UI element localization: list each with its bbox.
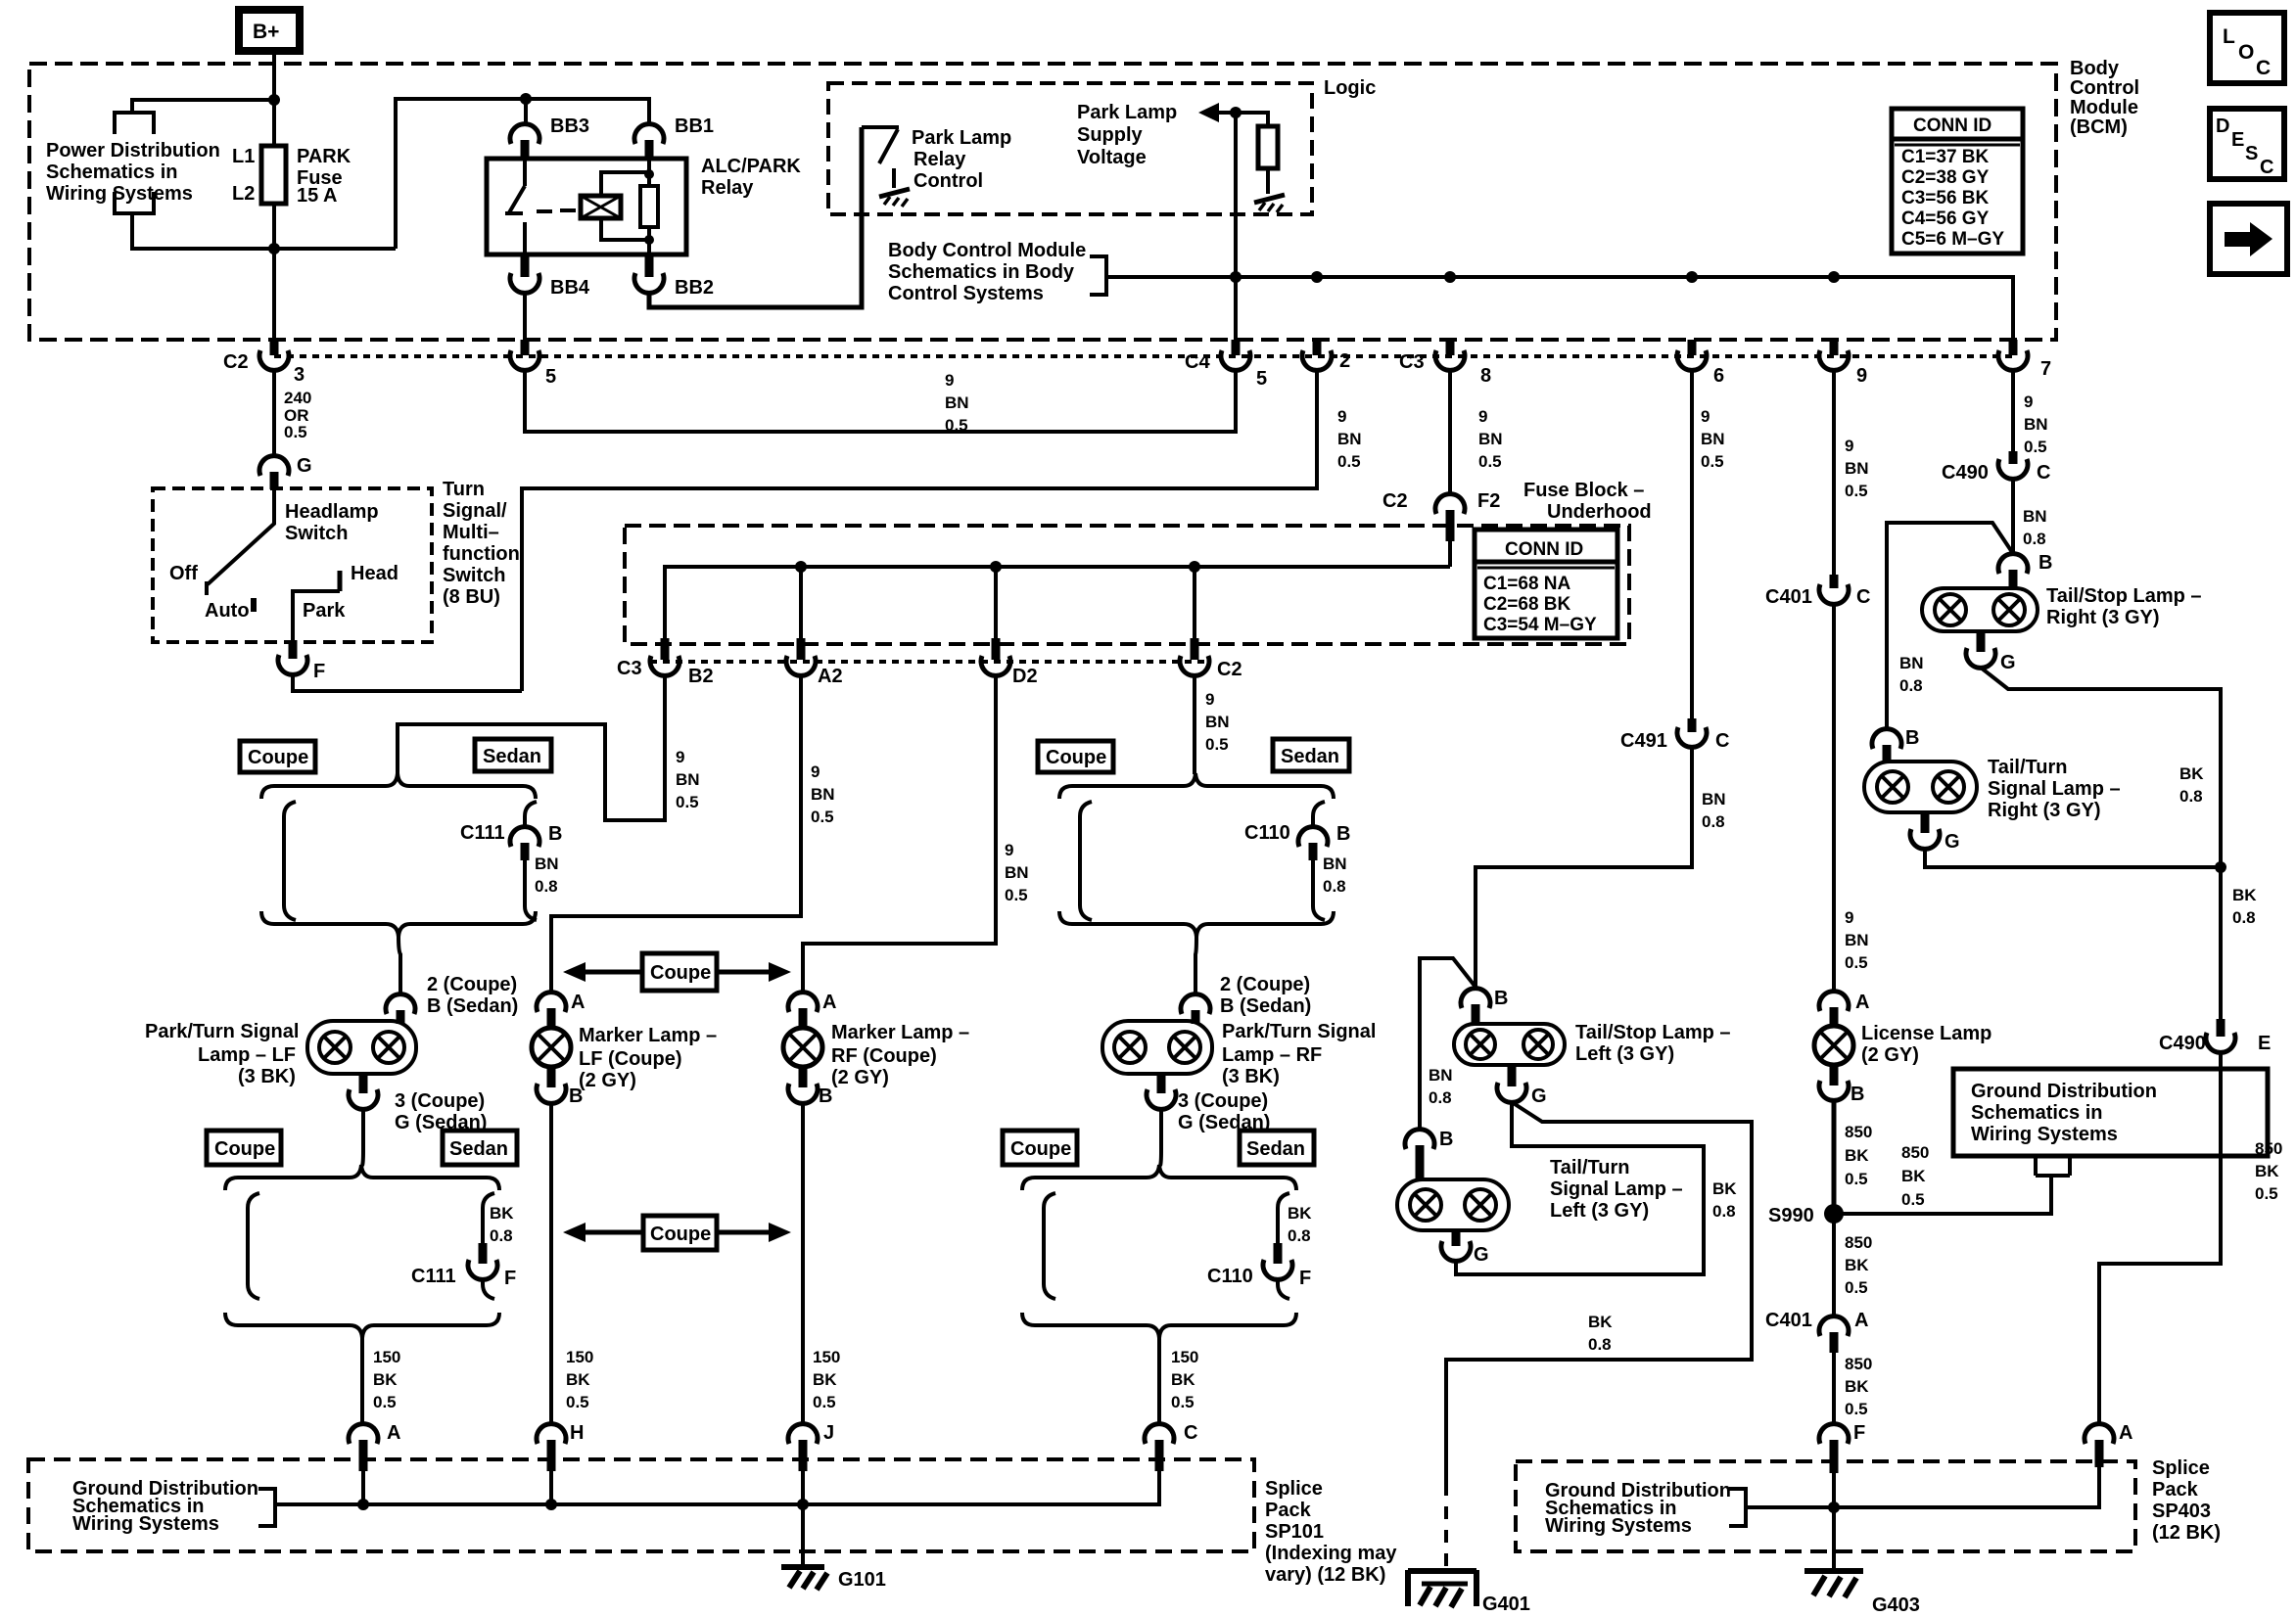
connector C401-A xyxy=(1765,1310,1868,1353)
connector B marker lamp LF xyxy=(537,1067,583,1107)
connector 2 Coupe B Sedan LF xyxy=(386,974,518,1024)
node junction right edge grounds xyxy=(2215,861,2226,873)
power distribution reference bracket top xyxy=(115,113,154,134)
svg-text:C: C xyxy=(2260,157,2273,178)
connector A marker lamp LF xyxy=(537,992,585,1028)
svg-text:Voltage: Voltage xyxy=(1077,147,1147,168)
svg-text:Body: Body xyxy=(2070,58,2120,79)
headlamp switch wiper arm xyxy=(207,489,274,595)
svg-text:C3=54 M–GY: C3=54 M–GY xyxy=(1483,615,1597,635)
Fuse Block Underhood dashed box xyxy=(625,526,1629,644)
pin C3-B2 xyxy=(617,638,714,687)
svg-text:0.8: 0.8 xyxy=(2023,530,2046,548)
wire lower RF to connector C xyxy=(1157,1338,1161,1425)
node junction ground bus at J xyxy=(797,1499,809,1510)
svg-text:C3=56 BK: C3=56 BK xyxy=(1901,188,1990,208)
svg-text:(2 GY): (2 GY) xyxy=(579,1070,636,1091)
wire tail turn right G to right edge xyxy=(1925,849,2221,867)
svg-text:B: B xyxy=(1905,727,1919,749)
BCM internal output bus xyxy=(1106,277,2013,341)
label Tail/Stop Lamp Left xyxy=(1575,1022,1731,1065)
svg-text:9: 9 xyxy=(1845,437,1853,455)
svg-text:BK: BK xyxy=(1171,1370,1195,1389)
wire pin8 down to F2 xyxy=(1448,370,1452,495)
svg-text:F: F xyxy=(1853,1422,1865,1444)
svg-text:9: 9 xyxy=(1701,407,1710,426)
svg-text:BK: BK xyxy=(490,1204,514,1223)
svg-text:0.5: 0.5 xyxy=(1845,1170,1868,1188)
wire label BN 0.8 C111 xyxy=(535,855,559,896)
svg-text:S990: S990 xyxy=(1768,1205,1814,1226)
svg-text:8: 8 xyxy=(1480,365,1491,387)
svg-text:B: B xyxy=(2038,552,2052,574)
svg-text:C110: C110 xyxy=(1207,1266,1253,1287)
svg-text:Tail/Turn: Tail/Turn xyxy=(1550,1157,1629,1178)
svg-text:2 (Coupe): 2 (Coupe) xyxy=(1220,974,1310,995)
svg-text:(8 BU): (8 BU) xyxy=(443,586,500,608)
svg-text:9: 9 xyxy=(676,748,684,766)
svg-text:Control: Control xyxy=(914,170,983,192)
ground distribution box legs xyxy=(2036,1156,2070,1176)
wire label 850 BK 0.5 S990 right xyxy=(1901,1143,1929,1209)
label Coupe box upper RF xyxy=(1038,741,1113,772)
svg-text:BK: BK xyxy=(1845,1377,1869,1396)
svg-text:Coupe: Coupe xyxy=(248,747,308,768)
wire label 9 BN 0.5 B2 xyxy=(676,748,700,811)
svg-text:9: 9 xyxy=(811,762,820,781)
svg-text:Headlamp: Headlamp xyxy=(285,501,379,523)
wire label 9 BN 0.5 A2 xyxy=(811,762,835,826)
brace split upper LF xyxy=(261,773,536,799)
wire label BK 0.8 outer path xyxy=(1588,1313,1613,1354)
wire BB2 to park lamp relay control xyxy=(649,127,862,307)
lamp Park/Turn Signal Lamp RF capsule xyxy=(1102,1021,1212,1074)
wire bus down to C2 xyxy=(1193,567,1196,641)
lamp Marker Lamp RF xyxy=(783,1028,822,1067)
svg-text:B: B xyxy=(548,823,562,845)
ground G401 xyxy=(1408,1570,1530,1615)
svg-text:C5=6 M–GY: C5=6 M–GY xyxy=(1901,229,2004,250)
pin C2-3 xyxy=(223,340,305,386)
wire pin3 to headlamp switch G xyxy=(272,370,276,457)
pin C4-5 xyxy=(1185,340,1267,390)
wire tail stop left G outer path to G401 xyxy=(1446,1102,1752,1483)
wire F to pin2 run xyxy=(293,674,522,691)
svg-text:PARK: PARK xyxy=(297,146,351,167)
svg-text:0.5: 0.5 xyxy=(2024,438,2047,456)
svg-text:(2 GY): (2 GY) xyxy=(1861,1044,1919,1066)
coupe wire upper RF xyxy=(1080,802,1092,920)
svg-text:Body Control Module: Body Control Module xyxy=(888,240,1086,261)
svg-text:Power Distribution: Power Distribution xyxy=(46,140,220,162)
svg-text:150: 150 xyxy=(566,1348,593,1366)
wire D2 to marker lamp RF xyxy=(803,675,996,993)
svg-text:C401: C401 xyxy=(1765,586,1812,608)
brace split lower RF xyxy=(1022,1165,1296,1190)
lamp License Lamp xyxy=(1814,1026,1853,1065)
svg-text:Coupe: Coupe xyxy=(1046,747,1106,768)
svg-text:0.5: 0.5 xyxy=(676,793,699,811)
label Head with contact tick xyxy=(340,563,398,591)
svg-text:240: 240 xyxy=(284,389,311,407)
connector B tail stop left xyxy=(1461,988,1508,1025)
svg-text:C1=68 NA: C1=68 NA xyxy=(1483,574,1571,594)
connector H ground distribution xyxy=(537,1422,584,1471)
svg-text:C3: C3 xyxy=(617,658,642,679)
svg-text:A: A xyxy=(822,992,836,1013)
svg-text:0.5: 0.5 xyxy=(1845,482,1868,500)
svg-text:(BCM): (BCM) xyxy=(2070,116,2128,138)
wire C2 to RF brace feed xyxy=(1193,675,1196,774)
svg-text:G101: G101 xyxy=(838,1569,886,1591)
svg-text:850: 850 xyxy=(1845,1233,1872,1252)
svg-text:Turn: Turn xyxy=(443,479,485,500)
svg-text:License Lamp: License Lamp xyxy=(1861,1023,1991,1044)
brace join lower LF xyxy=(225,1313,499,1338)
svg-text:Tail/Stop Lamp –: Tail/Stop Lamp – xyxy=(1575,1022,1731,1043)
label Marker Lamp RF xyxy=(831,1022,969,1088)
svg-text:BB3: BB3 xyxy=(550,115,589,137)
wire C490-E to SP403 A xyxy=(2099,1052,2221,1425)
lamp Tail/Stop Lamp Left capsule xyxy=(1454,1024,1565,1065)
svg-text:E: E xyxy=(2231,129,2244,151)
node junction bus at D2 xyxy=(990,561,1002,573)
wire arrow to resistor xyxy=(1217,113,1268,126)
svg-text:0.8: 0.8 xyxy=(1429,1088,1452,1107)
wire lower LF to connector A xyxy=(360,1338,364,1425)
coupe variant arrow upper xyxy=(563,953,791,991)
sedan wire upper hook lower RF xyxy=(1278,1193,1289,1243)
svg-text:0.5: 0.5 xyxy=(1478,452,1502,471)
wire label 850 BK 0.5 license xyxy=(1845,1123,1872,1188)
brace split upper RF xyxy=(1059,773,1334,799)
label Turn Signal Multifunction Switch xyxy=(443,479,520,608)
svg-text:C2: C2 xyxy=(1217,659,1242,680)
power distribution reference bracket bottom xyxy=(115,192,154,213)
ALC/PARK relay box xyxy=(487,159,686,254)
svg-text:3 (Coupe): 3 (Coupe) xyxy=(395,1090,485,1112)
pin 5 left xyxy=(510,340,556,388)
svg-text:CONN ID: CONN ID xyxy=(1505,539,1583,560)
svg-text:0.5: 0.5 xyxy=(1845,953,1868,972)
svg-text:BB2: BB2 xyxy=(675,277,714,299)
svg-text:Pack: Pack xyxy=(1265,1500,1312,1521)
wire label BK 0.8 C110-F xyxy=(1288,1204,1312,1245)
svg-text:Wiring Systems: Wiring Systems xyxy=(1545,1515,1692,1537)
svg-text:B (Sedan): B (Sedan) xyxy=(1220,995,1311,1017)
wire tail stop left G inner path to tail turn left G xyxy=(1456,1102,1704,1274)
fuse PARK Fuse 15 A xyxy=(232,146,351,207)
label Coupe box lower RF xyxy=(1003,1131,1077,1165)
wire label 850 BK 0.5 C401-A xyxy=(1845,1355,1872,1418)
svg-text:150: 150 xyxy=(373,1348,400,1366)
svg-text:0.5: 0.5 xyxy=(373,1393,397,1411)
wire head contact to F xyxy=(293,591,340,640)
svg-text:BK: BK xyxy=(566,1370,590,1389)
svg-text:A2: A2 xyxy=(818,666,843,687)
svg-text:0.8: 0.8 xyxy=(1323,877,1346,896)
node junction bus at pin 2 xyxy=(1311,271,1323,283)
svg-text:BN: BN xyxy=(811,785,835,804)
svg-text:F: F xyxy=(504,1268,516,1289)
wire label 150 BK 0.5 RF xyxy=(1171,1348,1198,1411)
svg-text:0.5: 0.5 xyxy=(1901,1190,1925,1209)
wire label BN 0.8 tail turn left xyxy=(1429,1066,1453,1107)
wire down to BB3 xyxy=(524,99,528,124)
svg-text:BK: BK xyxy=(2232,886,2257,904)
relay resistor xyxy=(640,186,658,227)
coupe variant arrow lower xyxy=(563,1216,791,1250)
node junction coil/resistor top xyxy=(644,169,654,179)
svg-text:0.5: 0.5 xyxy=(1005,886,1028,904)
wire pin6 down to C491 xyxy=(1690,370,1694,718)
connector BB4 xyxy=(510,254,590,299)
node junction bus at C2 xyxy=(1189,561,1200,573)
svg-text:0.8: 0.8 xyxy=(2232,908,2256,927)
connector C491-C xyxy=(1620,718,1729,752)
node junction bus at pin 5 xyxy=(1230,271,1242,283)
svg-text:9: 9 xyxy=(1856,365,1867,387)
label ALC/PARK Relay xyxy=(701,156,801,199)
svg-text:G: G xyxy=(1474,1244,1489,1266)
svg-text:Switch: Switch xyxy=(285,523,348,544)
ground reference bracket right xyxy=(1729,1489,1746,1526)
relay actuation dashed link xyxy=(537,210,576,211)
svg-text:0.5: 0.5 xyxy=(284,423,307,441)
wire label 150 BK 0.5 marker LF xyxy=(566,1348,593,1411)
svg-text:Head: Head xyxy=(351,563,398,584)
svg-text:C2: C2 xyxy=(223,351,249,373)
wire lamp to lower brace RF xyxy=(1160,1109,1161,1166)
label Park/Turn Signal Lamp LF xyxy=(145,1021,299,1087)
wire label 9 BN 0.5 pin7 xyxy=(2024,393,2048,456)
wire label 9 BN 0.5 on BB4 run xyxy=(945,371,969,435)
svg-text:0.5: 0.5 xyxy=(1845,1278,1868,1297)
svg-text:Park/Turn Signal: Park/Turn Signal xyxy=(145,1021,299,1042)
connector A ground distribution xyxy=(349,1422,400,1471)
svg-text:BN: BN xyxy=(535,855,559,873)
svg-text:G: G xyxy=(297,455,312,477)
svg-text:BN: BN xyxy=(1701,430,1725,448)
svg-text:L2: L2 xyxy=(232,183,255,205)
svg-text:F2: F2 xyxy=(1477,490,1500,512)
svg-text:C2: C2 xyxy=(1382,490,1408,512)
svg-text:O: O xyxy=(2238,41,2254,64)
svg-text:850: 850 xyxy=(1901,1143,1929,1162)
svg-text:Control: Control xyxy=(2070,77,2139,99)
wire J to ground bus and G101 xyxy=(801,1471,805,1567)
sedan wire bottom hook lower RF xyxy=(1278,1279,1289,1299)
fuse block internal bus xyxy=(665,567,1450,641)
lamp Tail/Turn Signal Lamp Left capsule xyxy=(1397,1179,1509,1230)
wire pin5-left down right to C4-5 xyxy=(525,370,1236,432)
svg-text:BK: BK xyxy=(813,1370,837,1389)
wire A to ground bus xyxy=(361,1471,365,1506)
wire label BN 0.8 C110 xyxy=(1323,855,1347,896)
label Sedan box lower RF xyxy=(1240,1131,1314,1165)
label Coupe box upper LF xyxy=(240,741,315,772)
svg-text:G: G xyxy=(1531,1086,1547,1107)
wire branch to tail turn left B xyxy=(1420,958,1475,1131)
wire supply voltage down to pin C4-5 xyxy=(1234,113,1238,341)
node junction coil/resistor bottom xyxy=(644,235,654,245)
connector C111-B sedan path xyxy=(460,802,562,860)
svg-text:BN: BN xyxy=(676,770,700,789)
svg-text:CONN ID: CONN ID xyxy=(1913,115,1991,136)
connector B tail turn left xyxy=(1405,1129,1453,1180)
svg-text:0.8: 0.8 xyxy=(1588,1335,1612,1354)
node junction supply voltage xyxy=(1230,107,1242,118)
relay switch contact xyxy=(505,159,525,254)
label Ground Distribution Schematics in Wiring Systems left xyxy=(72,1478,258,1535)
svg-text:Lamp – LF: Lamp – LF xyxy=(198,1044,296,1066)
svg-text:3: 3 xyxy=(294,364,305,386)
wire C491 to tail stop left B xyxy=(1476,747,1692,990)
forward arrow legend box xyxy=(2210,204,2287,274)
label Splice Pack SP403 xyxy=(2152,1457,2221,1544)
connector BB2 xyxy=(634,254,714,299)
label Power Distribution Schematics in Wiring Systems xyxy=(46,140,220,205)
B+ battery terminal box xyxy=(239,10,300,51)
connector A SP403 xyxy=(2085,1422,2132,1467)
wire label BN 0.8 C490-C xyxy=(2023,507,2047,548)
wire A2 to marker lamp LF xyxy=(551,675,801,993)
svg-text:vary) (12 BK): vary) (12 BK) xyxy=(1265,1564,1385,1586)
svg-text:0.5: 0.5 xyxy=(1337,452,1361,471)
coupe wire lower RF xyxy=(1044,1193,1055,1299)
svg-text:C401: C401 xyxy=(1765,1310,1812,1331)
connector F ground distribution right xyxy=(1819,1422,1865,1473)
svg-text:Wiring Systems: Wiring Systems xyxy=(46,183,193,205)
svg-text:BK: BK xyxy=(1588,1313,1613,1331)
svg-text:RF (Coupe): RF (Coupe) xyxy=(831,1045,937,1067)
label Auto with contact tick xyxy=(205,598,257,622)
label Ground Distribution Schematics in Wiring Systems right xyxy=(1545,1480,1731,1537)
wire C401-C to license lamp A xyxy=(1832,604,1836,993)
svg-text:A: A xyxy=(1854,1310,1868,1331)
wire label BK 0.8 inner path xyxy=(1712,1179,1737,1221)
sedan wire upper hook lower LF xyxy=(483,1193,494,1243)
node junction bus at pin 9 xyxy=(1828,271,1840,283)
connector C401-C xyxy=(1765,575,1870,608)
DESC legend box xyxy=(2210,109,2284,179)
BCM connector pin row dotted line xyxy=(274,354,2013,358)
svg-text:0.8: 0.8 xyxy=(490,1226,513,1245)
wire label 850 BK 0.5 right edge xyxy=(2255,1139,2282,1203)
svg-text:9: 9 xyxy=(1845,908,1853,927)
wire label 9 BN 0.5 pin9 xyxy=(1845,437,1869,500)
svg-text:Splice: Splice xyxy=(1265,1478,1323,1500)
wire C to ground bus corner xyxy=(275,1471,1159,1504)
wire label 9 BN 0.5 D2 xyxy=(1005,841,1029,904)
connector B tail turn right xyxy=(1872,727,1919,762)
svg-text:BN: BN xyxy=(945,393,969,412)
svg-text:6: 6 xyxy=(1713,365,1724,387)
svg-text:B: B xyxy=(1439,1129,1453,1150)
wire BB4 to BCM pin 5 xyxy=(523,293,527,341)
svg-text:BK: BK xyxy=(1845,1256,1869,1274)
wire from bracket bottom right to main line xyxy=(132,213,396,249)
logic pull-up resistor xyxy=(1258,126,1278,168)
wire pin2 down to headlamp park feed xyxy=(522,370,1317,691)
svg-text:Relay: Relay xyxy=(701,177,754,199)
wire label 9 BN 0.5 pin2 xyxy=(1337,407,1362,471)
svg-text:0.5: 0.5 xyxy=(813,1393,836,1411)
wire label BN 0.8 C491 xyxy=(1702,790,1726,831)
wire brace to lamp connector RF xyxy=(1195,937,1196,995)
svg-text:F: F xyxy=(313,661,325,682)
lamp Park/Turn Signal Lamp LF capsule xyxy=(307,1021,416,1074)
connector A license lamp xyxy=(1819,992,1869,1027)
svg-text:C490: C490 xyxy=(1942,462,1989,484)
svg-text:C: C xyxy=(1715,730,1729,752)
wire right branch up and over to relay feed xyxy=(396,99,649,249)
connector C ground distribution xyxy=(1145,1422,1197,1471)
svg-text:(3 BK): (3 BK) xyxy=(238,1066,296,1087)
connector B marker lamp RF xyxy=(788,1067,832,1107)
svg-text:7: 7 xyxy=(2040,358,2051,380)
node junction feeding BB3 xyxy=(520,93,532,105)
wire marker RF B to J xyxy=(801,1103,805,1425)
wire label BN 0.8 tail turn right xyxy=(1899,654,1924,695)
svg-text:850: 850 xyxy=(1845,1355,1872,1373)
connector J ground distribution xyxy=(788,1422,834,1471)
svg-text:9: 9 xyxy=(1205,690,1214,709)
svg-text:B2: B2 xyxy=(688,666,714,687)
label Sedan box upper RF xyxy=(1273,739,1349,771)
wire label 3 240 OR 0.5 xyxy=(284,389,311,441)
wire tail stop right G to right edge xyxy=(1981,668,2221,1019)
connector B license lamp xyxy=(1819,1065,1864,1105)
svg-text:BN: BN xyxy=(2024,415,2048,434)
svg-text:C: C xyxy=(1184,1422,1197,1444)
svg-text:C3: C3 xyxy=(1399,351,1425,373)
svg-text:Park: Park xyxy=(303,600,346,622)
wire C490-C down to tail stop right B xyxy=(2011,479,2015,555)
svg-text:Signal Lamp –: Signal Lamp – xyxy=(1550,1178,1683,1200)
node junction below fuse xyxy=(268,243,280,254)
svg-text:BN: BN xyxy=(1429,1066,1453,1085)
wire label BK 0.8 C111-F xyxy=(490,1204,514,1245)
svg-text:B: B xyxy=(1494,988,1508,1009)
svg-text:Right (3 GY): Right (3 GY) xyxy=(1988,800,2101,821)
svg-text:150: 150 xyxy=(1171,1348,1198,1366)
sedan wire lower part upper LF xyxy=(525,860,537,920)
svg-text:5: 5 xyxy=(1256,368,1267,390)
wire F to G403 xyxy=(1832,1473,1836,1571)
svg-text:B+: B+ xyxy=(253,21,279,43)
wire branch left to power distribution reference xyxy=(132,100,274,115)
wire B2 jog to LF brace feed xyxy=(398,675,665,820)
svg-text:BK: BK xyxy=(1288,1204,1312,1223)
svg-text:function: function xyxy=(443,543,520,565)
svg-text:0.8: 0.8 xyxy=(1288,1226,1311,1245)
svg-text:150: 150 xyxy=(813,1348,840,1366)
wire label 9 BN 0.5 pin8 xyxy=(1478,407,1503,471)
svg-text:Tail/Stop Lamp –: Tail/Stop Lamp – xyxy=(2046,585,2202,607)
connector G tail turn left xyxy=(1441,1230,1489,1266)
coupe wire lower LF xyxy=(248,1193,259,1299)
svg-text:Schematics in: Schematics in xyxy=(1971,1102,2103,1124)
svg-text:9: 9 xyxy=(1005,841,1013,859)
label Sedan box upper LF xyxy=(475,739,551,771)
svg-text:Splice: Splice xyxy=(2152,1457,2210,1479)
pin 2 xyxy=(1302,340,1350,372)
svg-text:BN: BN xyxy=(1845,459,1869,478)
connector G headlamp switch xyxy=(259,455,312,489)
svg-text:15 A: 15 A xyxy=(297,185,338,207)
svg-text:BN: BN xyxy=(1005,863,1029,882)
